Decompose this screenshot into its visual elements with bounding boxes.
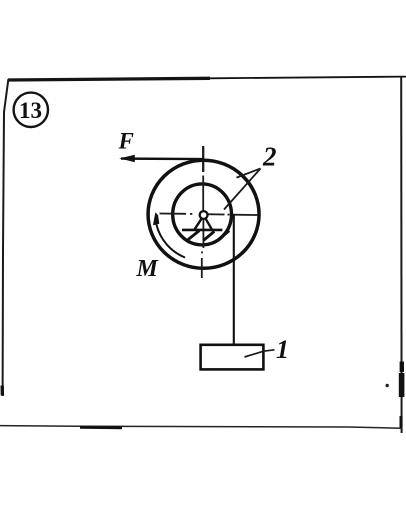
- moment M arrowhead: [153, 212, 159, 225]
- leader line to outer pulley: [237, 169, 261, 178]
- pin pivot at center: [200, 211, 208, 219]
- svg-text:13: 13: [19, 98, 42, 123]
- rope wire from inner pulley to block: [233, 214, 235, 346]
- leader line to block: [245, 350, 275, 357]
- frame bottom border: [0, 426, 402, 429]
- pivot support triangle: [195, 218, 212, 229]
- frame right border: [400, 77, 402, 433]
- force F line: [121, 157, 204, 160]
- pulley inner circle 2: [173, 184, 232, 245]
- badge circle 13: [14, 93, 48, 127]
- svg-text:2: 2: [262, 142, 277, 172]
- pivot support hatching: [188, 231, 229, 241]
- frame left border end blob: [1, 386, 5, 396]
- vertical centerline: [202, 146, 204, 278]
- frame top border: [8, 78, 210, 80]
- frame left border: [3, 79, 9, 396]
- frame bottom border thick blotch: [80, 426, 122, 430]
- pivot support base line: [182, 229, 222, 232]
- block 1: [201, 345, 264, 370]
- horizontal centerline: [160, 214, 259, 216]
- svg-text:F: F: [118, 129, 134, 154]
- pulley outer circle 2: [148, 160, 259, 268]
- frame right border thick blotch: [400, 362, 404, 373]
- force F arrowhead: [119, 155, 135, 162]
- svg-text:1: 1: [276, 335, 289, 364]
- svg-text:M: M: [136, 256, 160, 282]
- leader line to inner pulley: [224, 169, 261, 210]
- moment M arc: [156, 224, 185, 258]
